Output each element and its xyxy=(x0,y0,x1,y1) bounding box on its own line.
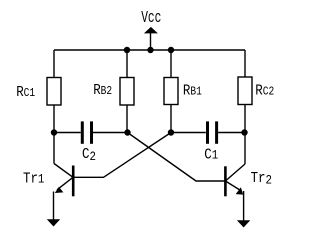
svg-text:RC2: RC2 xyxy=(255,83,274,99)
svg-text:RC1: RC1 xyxy=(16,85,35,101)
svg-text:RB1: RB1 xyxy=(183,83,202,99)
svg-text:Vcc: Vcc xyxy=(141,9,161,28)
svg-text:Tr2: Tr2 xyxy=(251,171,272,188)
svg-text:Tr1: Tr1 xyxy=(23,172,44,188)
svg-text:C2: C2 xyxy=(82,147,96,164)
svg-text:RB2: RB2 xyxy=(93,83,112,99)
svg-text:C1: C1 xyxy=(204,148,218,164)
